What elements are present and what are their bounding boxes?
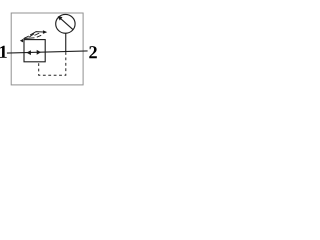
spring zigzag (shingled teeth) (24, 33, 41, 38)
wire: main pipe line port 1 to port 2 (7, 51, 88, 53)
regulator body box (24, 40, 45, 62)
gauge circle (56, 14, 75, 33)
wire: gauge stem (65, 33, 67, 52)
border frame (11, 13, 83, 85)
port label 2 (89, 46, 97, 58)
flow arrow right head (37, 50, 41, 55)
gauge needle (61, 19, 73, 30)
pilot dashed line from box bottom to pipe (39, 52, 66, 75)
adjustment arrow (30, 32, 43, 35)
relief exhaust arrow (left) (20, 39, 23, 43)
flow arrow left head (27, 50, 31, 55)
spring base stroke (24, 37, 35, 40)
port label 1 (0, 46, 7, 58)
